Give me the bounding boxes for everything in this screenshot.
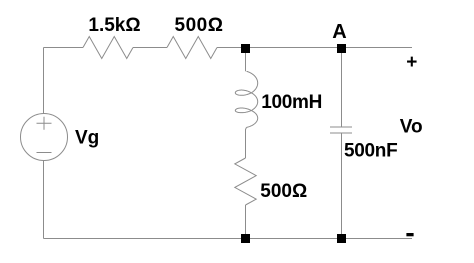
- junction node dot bottom right: [337, 234, 346, 243]
- wire from R2 to node A and right edge: [217, 47, 412, 49]
- svg-text:Vo: Vo: [400, 116, 423, 137]
- svg-text:+: +: [406, 52, 417, 73]
- wire right branch upper (node A to capacitor): [341, 48, 343, 128]
- wire below R3 to bottom rail: [245, 205, 247, 239]
- wire middle branch upper: [245, 48, 247, 72]
- svg-text:1.5kΩ: 1.5kΩ: [88, 15, 140, 36]
- svg-text:500nF: 500nF: [344, 141, 397, 162]
- junction node dot A top right: [337, 44, 346, 53]
- voltage source plus sign: [37, 117, 52, 130]
- output minus terminal mark: [406, 233, 413, 236]
- wire between L1 and R3: [246, 127, 247, 158]
- svg-text:500Ω: 500Ω: [175, 15, 224, 36]
- junction node dot bottom middle: [241, 234, 250, 243]
- wire top-left vertical segment: [43, 48, 45, 114]
- voltage source Vg circle: [21, 114, 68, 161]
- inductor L1 coil: [235, 71, 257, 127]
- wire below capacitor to bottom rail: [341, 133, 343, 239]
- resistor R1 1.5k ohm zigzag: [83, 37, 133, 59]
- wire top horizontal left of R1: [44, 47, 84, 49]
- svg-text:Vg: Vg: [75, 128, 99, 149]
- resistor R2 500 ohm zigzag: [167, 37, 217, 59]
- capacitor C1 bottom plate: [330, 132, 352, 134]
- resistor R3 500 ohm vertical zigzag: [235, 158, 256, 205]
- capacitor C1 top plate: [330, 126, 352, 128]
- svg-text:100mH: 100mH: [261, 92, 322, 113]
- wire bottom rail: [44, 238, 413, 240]
- wire between R1 and R2: [133, 47, 167, 49]
- voltage source minus sign: [37, 152, 52, 154]
- wire left vertical below source: [43, 161, 45, 239]
- junction node dot top middle: [241, 44, 250, 53]
- svg-text:500Ω: 500Ω: [260, 181, 307, 202]
- svg-text:A: A: [332, 21, 346, 43]
